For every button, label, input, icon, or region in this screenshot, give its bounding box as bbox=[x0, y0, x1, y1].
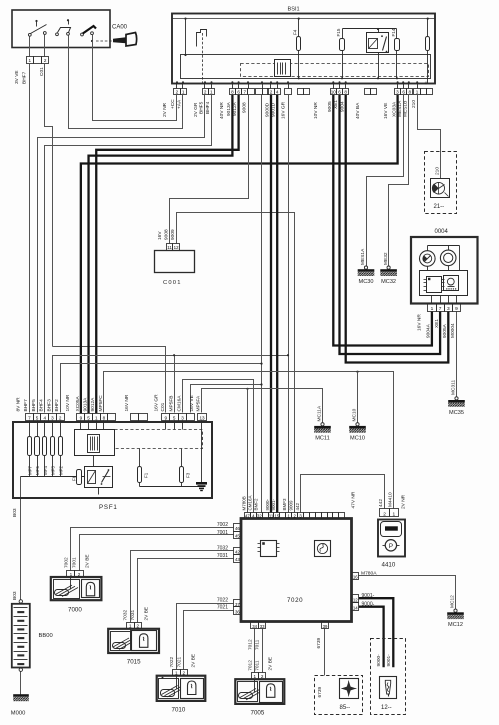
switch S1 top stub bbox=[36, 21, 38, 27]
svg-text:7: 7 bbox=[244, 90, 247, 95]
7005 inner compartment bbox=[238, 682, 258, 702]
svg-text:7005: 7005 bbox=[251, 710, 265, 717]
svg-text:MC35: MC35 bbox=[449, 410, 464, 416]
wire 7012 7020 pin34 to switch 7005 bbox=[254, 629, 256, 673]
ground MC32 bbox=[387, 266, 390, 269]
unit 85-- dashed box bbox=[315, 676, 363, 715]
svg-text:13: 13 bbox=[199, 415, 205, 420]
wire +AA CA00 to BSI1 bbox=[93, 48, 177, 121]
svg-text:16V NR: 16V NR bbox=[417, 314, 423, 331]
BSI1 connector icon bbox=[275, 60, 291, 77]
fuse F1 bbox=[139, 449, 141, 467]
svg-text:37: 37 bbox=[235, 602, 240, 607]
wire S3 contact down +AA bbox=[92, 35, 94, 41]
svg-text:MC12: MC12 bbox=[448, 622, 463, 628]
svg-text:1: 1 bbox=[416, 90, 419, 95]
svg-text:F1: F1 bbox=[143, 472, 148, 478]
svg-text:2: 2 bbox=[383, 511, 386, 517]
7010 switch icon bbox=[161, 690, 175, 697]
PSF1 dashed compartment bbox=[115, 430, 203, 449]
85-- icon box bbox=[340, 679, 359, 699]
wire 7001 switch 7000 to 7020 pin45 bbox=[80, 535, 234, 571]
7000 pin boxes bbox=[67, 571, 75, 577]
svg-text:XC03A: XC03A bbox=[391, 101, 397, 117]
switch S1 contacts bbox=[28, 33, 31, 36]
svg-text:BHF3: BHF3 bbox=[46, 399, 52, 412]
svg-text:P: P bbox=[389, 543, 393, 550]
svg-text:2V BE: 2V BE bbox=[84, 554, 90, 568]
svg-text:46: 46 bbox=[235, 526, 240, 531]
svg-text:XE1: XE1 bbox=[434, 319, 440, 328]
svg-text:XC05A: XC05A bbox=[75, 396, 81, 412]
svg-text:2: 2 bbox=[44, 58, 47, 63]
svg-text:9009: 9009 bbox=[289, 500, 294, 511]
svg-text:8: 8 bbox=[231, 90, 234, 95]
wire S1 to pin 1 bbox=[29, 37, 31, 57]
svg-text:MF3: MF3 bbox=[51, 466, 56, 475]
svg-text:16V VE: 16V VE bbox=[383, 103, 389, 119]
engine fuse box PSF1 bbox=[13, 422, 212, 498]
svg-text:9005A: 9005A bbox=[442, 323, 448, 338]
wire 9000- thick 7020 pin14 to unit 12-- bbox=[359, 607, 384, 668]
wire M780B junction to 7020 pin47 bbox=[246, 388, 248, 390]
wire MP5FB junction to PSF1 pin5 group2 bbox=[174, 356, 176, 413]
svg-text:2V BE: 2V BE bbox=[268, 657, 274, 671]
12-- icon box bbox=[380, 677, 397, 699]
svg-text:16V GR: 16V GR bbox=[154, 394, 160, 412]
PSF1 connector icon bbox=[88, 435, 100, 453]
BSI1 bottom pin stubs and junction dots bbox=[176, 84, 178, 89]
wire M0004 0004 pin9 to ground MC35 bbox=[456, 312, 458, 397]
switch S3 closed arm thick bbox=[83, 26, 96, 34]
0004 inner module box bbox=[420, 271, 468, 296]
svg-text:10V NR: 10V NR bbox=[313, 102, 319, 119]
instrument unit 0004 box bbox=[411, 237, 478, 304]
svg-text:MC11: MC11 bbox=[315, 436, 330, 442]
svg-text:MC10: MC10 bbox=[350, 436, 365, 442]
svg-text:12--: 12-- bbox=[381, 705, 392, 711]
svg-text:1: 1 bbox=[175, 671, 178, 676]
BSI1 step outline bbox=[197, 30, 207, 47]
wire 7021 switch 7010 to 7020 pin36 bbox=[184, 611, 234, 670]
junction to ground MC10 bbox=[356, 371, 358, 373]
fuse F5 bbox=[427, 19, 429, 37]
svg-text:7011: 7011 bbox=[255, 639, 261, 650]
PSF1 fuse feed stubs bbox=[29, 421, 31, 437]
svg-text:F3: F3 bbox=[185, 472, 190, 478]
svg-text:BB00: BB00 bbox=[39, 633, 53, 639]
svg-text:B03: B03 bbox=[12, 508, 18, 517]
svg-text:6: 6 bbox=[338, 90, 341, 95]
wire XE1 thick BSI1 to 0004 pin7 bbox=[340, 95, 441, 354]
svg-text:3: 3 bbox=[51, 415, 54, 420]
multiplex unit 7020 box bbox=[241, 519, 352, 622]
wire +CC CA00 to BSI1 bbox=[69, 48, 183, 129]
svg-text:47: 47 bbox=[245, 513, 250, 518]
fuse MF7 bbox=[28, 437, 32, 456]
wire 7002 switch 7000 to 7020 pin46 bbox=[71, 528, 234, 571]
wire C01 CA00 pin2 to crossover bbox=[45, 64, 53, 347]
7005 pin boxes bbox=[252, 673, 259, 680]
7015 switch icon bbox=[113, 643, 126, 649]
svg-text:8: 8 bbox=[103, 415, 106, 420]
svg-text:MC12: MC12 bbox=[450, 595, 456, 608]
wire 9009 C001 pin12 to 7020 pin2 bbox=[177, 213, 295, 513]
svg-text:7: 7 bbox=[439, 306, 442, 312]
21-- icon box bbox=[431, 179, 450, 198]
svg-text:2V NR: 2V NR bbox=[162, 102, 168, 117]
svg-text:BHF2: BHF2 bbox=[54, 399, 60, 412]
svg-text:2: 2 bbox=[59, 415, 62, 420]
svg-text:3: 3 bbox=[396, 90, 399, 95]
7010 pin boxes bbox=[173, 670, 181, 676]
svg-text:1: 1 bbox=[431, 306, 434, 312]
svg-text:10V NR: 10V NR bbox=[65, 394, 71, 411]
PSF1 pin13 internal wire bbox=[201, 421, 203, 483]
wire battery BB00 to ground M000 bbox=[20, 672, 22, 695]
0004 IC icon bbox=[427, 277, 442, 293]
wire 9001- thick 7020 pin12 to unit 12-- bbox=[359, 598, 393, 667]
PSF1 connector sub-box bbox=[75, 430, 115, 456]
svg-text:MF7: MF7 bbox=[28, 466, 33, 475]
svg-text:9013A: 9013A bbox=[226, 101, 232, 116]
wire 9001D thick BSI1 to 7020 pin15 bbox=[276, 95, 278, 513]
7010 lock sub-box bbox=[181, 679, 204, 699]
svg-text:210: 210 bbox=[411, 100, 417, 108]
svg-text:6: 6 bbox=[237, 90, 240, 95]
unit 21-- dashed box bbox=[425, 152, 457, 214]
7020 bottom pin box 39 bbox=[322, 622, 329, 629]
svg-text:2V NR: 2V NR bbox=[400, 494, 406, 509]
PSF1 fuse output bus bbox=[29, 456, 31, 477]
PSF1 group2 pin stubs bbox=[80, 421, 82, 430]
svg-text:MC32: MC32 bbox=[381, 279, 396, 285]
BSI1 inner top line bbox=[173, 18, 435, 20]
svg-text:6739: 6739 bbox=[317, 686, 323, 697]
4410 P symbol bbox=[385, 540, 396, 551]
svg-text:2: 2 bbox=[204, 90, 207, 95]
svg-text:9000-: 9000- bbox=[265, 498, 270, 510]
7020 bottom pin boxes 34 33 bbox=[251, 622, 259, 629]
svg-text:+: + bbox=[424, 81, 428, 87]
7020 left pin boxes 42 43 bbox=[234, 548, 242, 555]
switch S2 top stub bbox=[68, 21, 70, 25]
PSF1 top pin boxes group1 bbox=[26, 414, 34, 421]
svg-text:7012: 7012 bbox=[248, 660, 254, 671]
svg-text:16V VE: 16V VE bbox=[189, 395, 195, 411]
wire 9013A thick BSI1 to PSF1 bbox=[89, 95, 233, 413]
4410 pin boxes 2 1 bbox=[380, 509, 390, 517]
svg-text:MF4: MF4 bbox=[43, 466, 48, 475]
svg-text:9000-: 9000- bbox=[376, 654, 382, 667]
BSI1 internal wire node bbox=[185, 19, 187, 55]
svg-text:CM16A: CM16A bbox=[177, 395, 183, 412]
svg-text:6: 6 bbox=[402, 90, 405, 95]
0004 internal top wire bbox=[428, 245, 460, 247]
connector pins 1 2 under CA00 bbox=[27, 57, 34, 64]
svg-text:1: 1 bbox=[129, 624, 132, 629]
svg-text:5: 5 bbox=[173, 415, 176, 420]
svg-text:47V NR: 47V NR bbox=[350, 491, 356, 508]
svg-text:2: 2 bbox=[78, 572, 81, 577]
wire S2 contact down +CC bbox=[68, 36, 70, 48]
svg-text:BMF3: BMF3 bbox=[282, 498, 287, 510]
wire C01 horizontal to PSF1 pin9 bbox=[53, 347, 166, 413]
PSF1 top pin boxes group2 bbox=[77, 414, 85, 421]
svg-text:BMF2: BMF2 bbox=[254, 498, 259, 510]
svg-text:2: 2 bbox=[261, 674, 264, 679]
0004 gauge stems bbox=[427, 267, 429, 271]
svg-text:MP5FC: MP5FC bbox=[98, 395, 104, 412]
wire 9005 thick BSI1 to 0004 pin1 bbox=[333, 95, 432, 346]
svg-text:9008: 9008 bbox=[242, 102, 248, 113]
svg-text:12: 12 bbox=[353, 597, 358, 602]
PSF1 group3 pin stubs bbox=[165, 421, 167, 430]
wire 7011 7020 pin33 to switch 7005 bbox=[262, 629, 264, 673]
svg-text:MC11A: MC11A bbox=[317, 405, 323, 421]
svg-text:7031: 7031 bbox=[130, 609, 136, 620]
svg-text:21--: 21-- bbox=[434, 204, 445, 210]
svg-text:+AA: +AA bbox=[177, 99, 183, 109]
PSF1 pin 13 box bbox=[198, 414, 207, 421]
internal link wire F15-relay-F14 bbox=[343, 28, 397, 30]
PSF1 top pin boxes group3 bbox=[162, 414, 170, 421]
wire BMF2 PSF1 blank pin joining riser bbox=[191, 385, 262, 413]
7020 left pin boxes 46 45 bbox=[234, 524, 242, 532]
svg-text:BSI1: BSI1 bbox=[288, 7, 300, 13]
ground MC12 bbox=[454, 609, 457, 612]
wire 7031 switch 7015 to 7020 pin43 bbox=[138, 559, 234, 623]
7000 inner compartment bbox=[54, 580, 80, 599]
svg-text:43: 43 bbox=[235, 557, 240, 562]
wire 9012A thick BSI1 to PSF1 bbox=[96, 95, 238, 413]
svg-text:9: 9 bbox=[164, 415, 167, 420]
svg-text:8V NR: 8V NR bbox=[16, 397, 22, 412]
wire MP5FA PSF1 pin13 to ground MC11 bbox=[202, 389, 323, 423]
svg-text:7032: 7032 bbox=[123, 609, 129, 620]
svg-text:1: 1 bbox=[392, 511, 395, 517]
85-- fan star icon bbox=[341, 681, 356, 696]
svg-text:2V GR: 2V GR bbox=[193, 102, 199, 117]
switch unit 7015 box bbox=[108, 629, 159, 653]
svg-text:40V BA: 40V BA bbox=[355, 102, 361, 119]
svg-text:7032: 7032 bbox=[217, 546, 228, 552]
svg-text:M780B: M780B bbox=[242, 496, 247, 510]
connector C001 box bbox=[155, 251, 195, 273]
wire M780A 7020 pin16 to ground MC12 bbox=[359, 576, 456, 610]
svg-text:4: 4 bbox=[276, 90, 279, 95]
wire BHF4 BSI1 to PSF1 pin4 bbox=[45, 95, 212, 413]
svg-text:32: 32 bbox=[257, 513, 262, 518]
BSI1 connector pin boxes bbox=[174, 89, 181, 95]
wire B03 PSF1 to battery BB00 bbox=[20, 477, 22, 600]
svg-text:7015: 7015 bbox=[127, 659, 141, 666]
svg-text:F14: F14 bbox=[391, 28, 396, 36]
PSF1 internal ground bus bbox=[139, 483, 141, 487]
svg-text:7010: 7010 bbox=[172, 707, 186, 714]
7020 IC icon bbox=[261, 541, 277, 557]
svg-text:16V GR: 16V GR bbox=[281, 101, 287, 119]
svg-text:M0004: M0004 bbox=[450, 323, 456, 338]
7000 lock sub-box bbox=[82, 580, 100, 598]
7020 horn icon bbox=[315, 541, 331, 557]
key icon bbox=[113, 37, 126, 43]
switch S3 contacts bbox=[81, 33, 84, 36]
0004 pin stems bbox=[431, 296, 433, 304]
svg-text:M000: M000 bbox=[11, 711, 26, 717]
svg-text:7021: 7021 bbox=[217, 604, 228, 610]
svg-text:9: 9 bbox=[455, 306, 458, 312]
ground MC10 bbox=[356, 423, 359, 426]
7020 top pin strip bbox=[245, 513, 251, 519]
PSF1 relay bbox=[85, 467, 113, 488]
7020 right pin boxes 12 14 bbox=[352, 595, 359, 603]
wire S1 to pin 2 bbox=[44, 35, 46, 57]
wire 210 BSI1 to unit 21-- bbox=[418, 95, 441, 179]
svg-text:2: 2 bbox=[176, 90, 179, 95]
switch S2 arm bbox=[58, 28, 71, 33]
ground MC11 bbox=[321, 423, 324, 426]
svg-text:5: 5 bbox=[36, 415, 39, 420]
svg-text:10: 10 bbox=[331, 90, 337, 95]
BSI1 body control unit box bbox=[172, 14, 435, 84]
12-- injector icon bbox=[385, 680, 390, 694]
fuse MF5 bbox=[35, 437, 40, 456]
svg-text:4: 4 bbox=[43, 415, 46, 420]
svg-text:M780A: M780A bbox=[361, 570, 377, 576]
wire 9000D thick BSI1 to 7020 pin11 bbox=[270, 95, 272, 513]
svg-text:40V NR: 40V NR bbox=[219, 102, 225, 119]
svg-text:BHF5: BHF5 bbox=[31, 399, 37, 412]
svg-text:B03: B03 bbox=[12, 591, 18, 600]
svg-text:39: 39 bbox=[323, 624, 328, 629]
7015 lock sub-box bbox=[132, 631, 157, 651]
7005 lock sub-box bbox=[260, 682, 283, 703]
svg-text:1: 1 bbox=[95, 415, 98, 420]
svg-text:7031: 7031 bbox=[217, 553, 228, 559]
svg-text:7002: 7002 bbox=[63, 557, 69, 568]
wire 9008 BSI1 to C001 pin11 bbox=[170, 95, 249, 244]
21-- wiper icon bbox=[433, 182, 445, 194]
PSF1 relay feed bbox=[93, 456, 95, 467]
svg-text:16V: 16V bbox=[157, 231, 163, 240]
wire MP5FC PSF1 pin8 to 4410 and MC10 bbox=[104, 372, 394, 509]
handbrake switch 4410 box bbox=[378, 520, 405, 557]
C001 pin boxes 11 12 bbox=[167, 244, 173, 251]
wire MES1B BSI1 to ground MC32 bbox=[389, 95, 409, 267]
svg-text:42: 42 bbox=[235, 550, 240, 555]
7020 right pin box 16 bbox=[352, 573, 359, 580]
fuse F6 in PSF1 bbox=[77, 470, 82, 485]
7010 inner compartment bbox=[159, 679, 179, 699]
svg-text:CM16A: CM16A bbox=[248, 495, 253, 510]
BSI1 internal dashed wire bbox=[202, 33, 204, 84]
svg-text:7021: 7021 bbox=[176, 656, 182, 667]
svg-text:12: 12 bbox=[174, 245, 179, 250]
ignition switch unit CA00 box bbox=[12, 10, 110, 48]
svg-text:0004: 0004 bbox=[435, 229, 449, 235]
switch unit 7000 box bbox=[51, 577, 102, 600]
svg-text:BHF7: BHF7 bbox=[22, 71, 28, 84]
svg-text:2: 2 bbox=[182, 671, 185, 676]
svg-text:9000-: 9000- bbox=[362, 601, 375, 607]
svg-text:7001: 7001 bbox=[72, 557, 78, 568]
svg-text:9001-: 9001- bbox=[386, 654, 392, 667]
wire 16V NR BSI1 down to 7020 bbox=[261, 95, 263, 513]
svg-text:3V VE: 3V VE bbox=[14, 70, 20, 84]
svg-text:8: 8 bbox=[409, 90, 412, 95]
switch unit 7010 box bbox=[157, 676, 206, 701]
fuse MF4 bbox=[43, 437, 47, 456]
svg-text:45: 45 bbox=[235, 534, 240, 539]
fuse F15 bbox=[342, 29, 344, 39]
svg-text:442: 442 bbox=[295, 502, 300, 510]
svg-text:2: 2 bbox=[136, 624, 139, 629]
svg-text:9013A: 9013A bbox=[83, 397, 89, 412]
svg-text:7020: 7020 bbox=[287, 597, 303, 604]
wire MES1A BSI1 to ground MC30 bbox=[367, 95, 404, 267]
svg-text:7000: 7000 bbox=[68, 606, 82, 613]
svg-text:11: 11 bbox=[167, 245, 172, 250]
wire BMF3 BSI1 to 7020 pin1 bbox=[288, 95, 290, 513]
0004 gauge circle 2 bbox=[440, 250, 456, 266]
BSI1 inner lower box bbox=[181, 55, 431, 79]
svg-text:7011: 7011 bbox=[255, 660, 261, 671]
svg-text:16: 16 bbox=[353, 574, 358, 579]
svg-text:85--: 85-- bbox=[340, 705, 351, 711]
svg-text:5: 5 bbox=[87, 415, 90, 420]
svg-text:1: 1 bbox=[254, 674, 257, 679]
svg-text:7022: 7022 bbox=[169, 656, 175, 667]
dashed link to key bbox=[96, 40, 114, 42]
svg-text:F15: F15 bbox=[336, 28, 341, 36]
svg-text:CA00: CA00 bbox=[112, 25, 128, 31]
wire 7022 switch 7010 to 7020 pin37 bbox=[177, 604, 234, 670]
svg-text:1: 1 bbox=[210, 90, 213, 95]
BSI1 inner dashed compartment bbox=[241, 64, 429, 77]
wire MP5FB branch crossover to PSF1 pin3 bbox=[53, 356, 289, 413]
fuse F4 bbox=[298, 19, 300, 37]
svg-text:1: 1 bbox=[70, 572, 73, 577]
PSF1 relay bus bbox=[98, 488, 100, 495]
svg-text:BHF5: BHF5 bbox=[198, 101, 204, 114]
PSF1 internal ground symbol bbox=[196, 482, 207, 485]
svg-text:MP5FB: MP5FB bbox=[168, 396, 174, 412]
svg-text:+CC: +CC bbox=[170, 99, 176, 109]
fuse MF2 bbox=[59, 437, 63, 456]
7005 switch icon bbox=[239, 693, 253, 699]
svg-text:9001-: 9001- bbox=[362, 593, 375, 599]
7015 pin boxes bbox=[127, 623, 135, 629]
svg-text:9005: 9005 bbox=[327, 101, 333, 112]
svg-text:210: 210 bbox=[435, 167, 441, 175]
svg-text:8: 8 bbox=[344, 90, 347, 95]
svg-text:6739: 6739 bbox=[316, 637, 322, 648]
wire 9003A thick BSI1 to PSF1 pin9 bbox=[81, 95, 398, 413]
svg-text:C01: C01 bbox=[160, 402, 166, 411]
svg-text:7022: 7022 bbox=[217, 597, 228, 603]
wire 442 4410 pin2 to 7020 pin3 bbox=[301, 475, 385, 513]
svg-text:16V NR: 16V NR bbox=[124, 394, 130, 411]
svg-text:BHF4: BHF4 bbox=[39, 399, 45, 412]
svg-text:F6: F6 bbox=[71, 475, 76, 481]
relay in BSI1 bbox=[367, 33, 389, 53]
svg-text:MES1A: MES1A bbox=[360, 248, 366, 265]
svg-text:MC30: MC30 bbox=[359, 279, 374, 285]
svg-text:9008: 9008 bbox=[163, 229, 169, 240]
7020 left pin boxes 37 36 bbox=[234, 600, 242, 607]
svg-text:2V BE: 2V BE bbox=[143, 607, 149, 621]
